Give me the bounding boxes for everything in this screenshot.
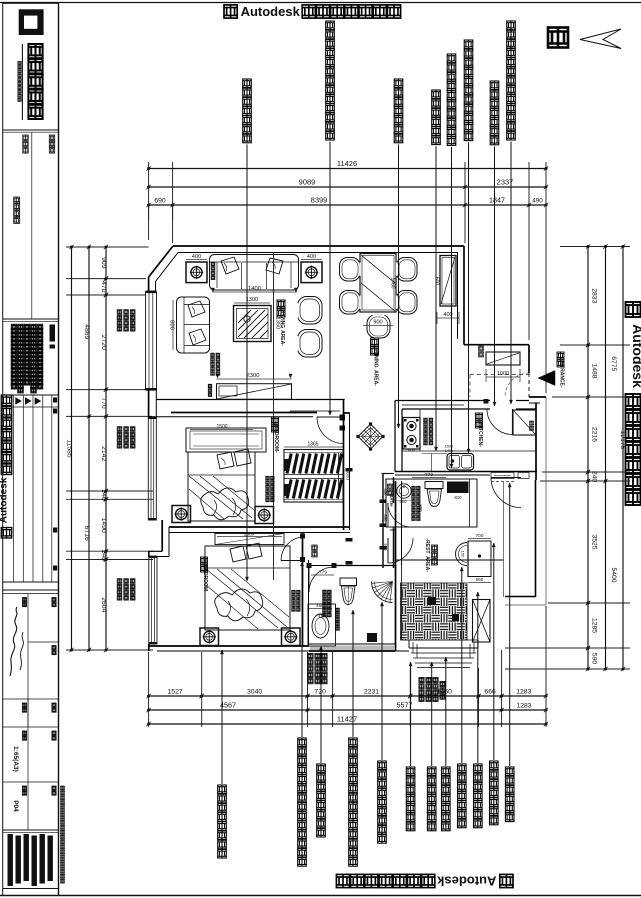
- bottom dimension row1: [149, 695, 546, 697]
- exterior wall bottom bedroom2: [148, 644, 150, 651]
- svg-text:590: 590: [591, 653, 598, 665]
- right watermark: Autodesk education banner (vertical): [626, 302, 641, 317]
- bed1 blanket: [201, 488, 249, 520]
- window spec text bedroom2: [117, 579, 122, 584]
- bed1 nightstand right: [255, 507, 274, 524]
- shoe cabinet caption: [479, 346, 484, 351]
- right dimension extension lines: [560, 246, 630, 248]
- left dimension total 11585: [71, 247, 73, 650]
- right wall shaft: [535, 480, 537, 597]
- svg-text:8399: 8399: [311, 196, 328, 205]
- svg-text:AREA-: AREA-: [373, 370, 379, 386]
- svg-text:810: 810: [455, 495, 463, 500]
- svg-text:550: 550: [383, 544, 388, 552]
- tv cabinet: [217, 384, 292, 400]
- svg-text:400: 400: [383, 489, 388, 497]
- svg-text:400: 400: [307, 254, 316, 260]
- bath1 spec labels below: [308, 653, 313, 658]
- bottom leader label 8: [445, 657, 447, 766]
- company name vertical text: [21, 44, 23, 120]
- sofa dimension 1400: [212, 291, 297, 293]
- bottom leader label 10: [477, 592, 479, 763]
- bedroom2 label: [201, 557, 208, 564]
- revision marks: [53, 398, 57, 403]
- kitchen counter divider: [431, 454, 433, 472]
- rest cabinet dim 700: [468, 538, 491, 540]
- rest laundry sink semicircle: [456, 543, 468, 566]
- bottom leader label 9: [461, 567, 463, 763]
- window bedroom1 left: [148, 418, 156, 520]
- entry top wall: [464, 344, 529, 346]
- sofa two-seat left: [177, 297, 210, 353]
- svg-text:690: 690: [154, 198, 166, 205]
- bed1 body: [188, 452, 255, 521]
- sofa2 dimension 800: [172, 300, 174, 350]
- svg-text:600: 600: [408, 448, 416, 453]
- bath1 dim 779: [311, 574, 334, 576]
- top watermark: Autodesk education banner: [224, 5, 237, 18]
- sofa three-seat: [210, 255, 299, 291]
- entry door swing dashed arc: [505, 373, 529, 397]
- bath2 washbasin round: [397, 484, 411, 498]
- svg-text:Autodesk: Autodesk: [241, 4, 301, 19]
- right dimension total 12175: [622, 247, 624, 670]
- living room spec text small: [211, 353, 215, 357]
- sofa pillows: [221, 257, 239, 274]
- sofa2 pillows: [188, 301, 205, 317]
- svg-text:11427: 11427: [337, 715, 357, 724]
- top leader label 1 faucet: [243, 79, 252, 88]
- balcony spec labels below: [419, 677, 424, 682]
- corridor right wall double: [382, 474, 384, 569]
- field label left: [23, 135, 29, 141]
- entrance label: [557, 352, 564, 359]
- bath1 washbasin: [312, 614, 329, 638]
- bottom leader label 3: [320, 646, 322, 763]
- left dimension extension lines: [66, 246, 149, 248]
- svg-text:1400: 1400: [248, 286, 261, 292]
- svg-text:779: 779: [319, 570, 327, 576]
- north arrow dart: [580, 29, 621, 49]
- top dimension row 690 8399 1847 490: [149, 204, 546, 206]
- svg-text:11426: 11426: [337, 159, 357, 168]
- exterior wall right of dining: [463, 246, 465, 345]
- svg-text:Autodesk: Autodesk: [436, 874, 496, 889]
- bath1 shower fan lines: [390, 582, 393, 603]
- eaves outline right: [545, 397, 547, 605]
- window spec text living: [117, 310, 122, 315]
- bottom leader label 12: [509, 483, 511, 766]
- company small caption text: [18, 61, 21, 64]
- svg-text:-BATH-: -BATH-: [389, 493, 394, 508]
- revision table: [3, 394, 59, 396]
- door hinge marks bedroom1: [340, 415, 346, 421]
- bath2 door arc: [387, 503, 389, 527]
- bottom leader label 6: [410, 662, 412, 766]
- right wall kitchen nook: [535, 403, 537, 480]
- svg-text:550: 550: [476, 577, 484, 582]
- bath1 top wall: [309, 565, 334, 567]
- living room label: [277, 300, 285, 308]
- bath1 toilet: [340, 578, 357, 586]
- bath2 spec text: [412, 486, 416, 490]
- top leader label 2 door brand: [326, 21, 335, 30]
- hall stub wall: [385, 479, 387, 527]
- bath1 floor mat black: [367, 633, 377, 642]
- entrance arrow: [538, 371, 555, 386]
- svg-text:1300: 1300: [246, 297, 258, 303]
- top dimension extension lines: [148, 162, 150, 240]
- exterior wall top: [173, 245, 464, 247]
- kitchen top wall: [402, 408, 490, 410]
- bath1 washbasin counter: [308, 604, 336, 646]
- svg-text:1500: 1500: [244, 532, 255, 538]
- corridor wall dim ticks: [380, 500, 387, 504]
- file path caption outside sidebar: [61, 786, 65, 790]
- exterior wall chamfer top-left: [149, 246, 173, 277]
- bed2 pillows: [230, 546, 246, 562]
- kitchen stove: [403, 418, 420, 450]
- svg-text:400: 400: [192, 254, 201, 260]
- armchair upper: [298, 297, 323, 325]
- svg-text:1:65(A3): 1:65(A3): [12, 746, 19, 772]
- svg-text:1527: 1527: [168, 689, 183, 696]
- svg-text:6775: 6775: [610, 356, 617, 371]
- dining area label: [371, 338, 379, 346]
- field label right: [49, 135, 55, 141]
- bath2 shower strip: [469, 479, 471, 527]
- bath1 shower: [372, 582, 393, 603]
- svg-text:Autodesk: Autodesk: [630, 324, 641, 388]
- rest area label: [432, 545, 438, 551]
- top leader label 8 entry door: [507, 21, 516, 30]
- exterior wall left between bedrooms: [161, 520, 163, 551]
- shoe cabinet entry: [486, 352, 520, 365]
- top leader label 7 shoe cabinet: [490, 81, 499, 90]
- svg-text:AREA-: AREA-: [424, 556, 430, 572]
- dining chair bottom: [367, 315, 390, 339]
- tv cabinet caption: [208, 384, 212, 388]
- svg-text:1488: 1488: [591, 363, 598, 378]
- hall diamond ornament: [358, 424, 383, 449]
- right dimension chain middle 6775 5400: [605, 247, 607, 670]
- svg-text:1365: 1365: [307, 442, 318, 448]
- left dimension chain middle 4869 6716: [88, 247, 90, 650]
- dining table: [360, 254, 396, 313]
- designer signature: [10, 607, 17, 676]
- revision triangles: [16, 398, 22, 405]
- svg-text:2604: 2604: [100, 597, 107, 612]
- dining chairs left: [340, 258, 361, 282]
- svg-text:800: 800: [169, 320, 175, 330]
- bottom dimension extension lines: [148, 652, 150, 727]
- top leader label 5 cabinet: [447, 54, 456, 63]
- dining chairs right: [397, 258, 418, 282]
- company logo: [19, 9, 44, 35]
- signature band: [3, 589, 59, 591]
- svg-text:600: 600: [345, 472, 351, 480]
- sofa arm spec text: [211, 262, 215, 266]
- kitchen label: [476, 413, 483, 420]
- balcony inner wall lines: [401, 565, 403, 640]
- living room end table with lamp left: [186, 262, 207, 283]
- svg-text:1000: 1000: [497, 371, 509, 377]
- top leader label 6 kitchen cabinets: [464, 40, 473, 49]
- bath2 counter black: [447, 482, 469, 494]
- living hall south wall: [157, 399, 345, 401]
- kitchen sink double bowl: [447, 454, 474, 471]
- left watermark: Autodesk education banner (vertical small): [0, 395, 12, 538]
- svg-text:2142: 2142: [100, 446, 107, 461]
- fridge entry: [513, 410, 536, 435]
- svg-text:Autodesk: Autodesk: [0, 477, 10, 523]
- bottom dimension row2 4567 5577 1283: [149, 709, 546, 711]
- AC unit box with X: [473, 600, 491, 643]
- bedroom1 right wall: [343, 400, 345, 531]
- top leader label 4 hood: [432, 90, 441, 99]
- svg-text:11585: 11585: [66, 439, 73, 458]
- exterior wall left mid: [148, 390, 150, 418]
- svg-text:12175: 12175: [619, 431, 626, 450]
- window living room left: [146, 292, 157, 390]
- bottom leader label 4: [352, 610, 354, 737]
- svg-text:470: 470: [100, 281, 107, 293]
- signature cell labels: [22, 598, 26, 602]
- svg-text:1847: 1847: [489, 196, 505, 205]
- svg-text:-BEDROOM-: -BEDROOM-: [202, 563, 208, 593]
- entry lower wall: [529, 396, 546, 398]
- svg-text:3525: 3525: [591, 534, 598, 549]
- north symbol text: [548, 28, 568, 48]
- left dimension chain inner: [105, 247, 107, 650]
- bedrooms divider wall: [169, 526, 350, 528]
- coffee table dim 1300: [234, 302, 270, 304]
- kitchen right wall: [516, 408, 536, 410]
- bedroom1 door arc: [317, 416, 344, 418]
- kitchen door arc: [512, 409, 514, 435]
- exterior wall left upper: [148, 277, 150, 292]
- svg-text:720: 720: [314, 689, 326, 696]
- armchair lower: [298, 330, 323, 358]
- top dimension row 9089 2337: [149, 186, 546, 188]
- tv cabinet dim 2300: [217, 378, 292, 380]
- bed1 dim 1500: [190, 429, 253, 431]
- dining table dims: [363, 325, 393, 327]
- kitchen wall louvers: [491, 473, 514, 479]
- title block frame: [3, 3, 59, 895]
- svg-text:2720: 2720: [100, 335, 107, 350]
- svg-text:490: 490: [532, 198, 543, 205]
- balcony dark squares: [428, 597, 436, 605]
- bed1 nightstand left: [172, 506, 191, 523]
- svg-text:-DINING: -DINING: [373, 348, 379, 367]
- title block divider 2: [3, 318, 59, 320]
- bath2 toilet: [425, 482, 443, 489]
- bedroom2 dresser: [215, 534, 284, 545]
- title block divider 1: [3, 129, 59, 131]
- dining cabinet: [440, 256, 456, 307]
- bedroom2 door arc: [281, 560, 303, 562]
- exterior wall bottom bath: [309, 643, 395, 645]
- svg-text:900: 900: [373, 320, 382, 326]
- svg-text:240: 240: [591, 471, 598, 483]
- leader line through living room: [273, 253, 275, 580]
- living room end table with lamp right: [301, 262, 322, 283]
- svg-text:1285: 1285: [591, 618, 598, 633]
- top leader label 3 faucet: [394, 79, 403, 88]
- svg-text:-LIVING: -LIVING: [279, 310, 285, 328]
- kitchen left wall: [401, 409, 403, 472]
- page bottom border: [0, 895, 641, 897]
- svg-text:1490: 1490: [100, 518, 107, 533]
- top dimension row 11426: [149, 168, 546, 170]
- bedroom1 label: [272, 417, 279, 424]
- entry hall door arc: [491, 477, 521, 479]
- svg-text:700: 700: [475, 533, 483, 539]
- rest balcony divider: [396, 559, 504, 561]
- svg-text:779: 779: [425, 472, 433, 478]
- bed2 nightstand right: [282, 628, 301, 646]
- svg-text:P04: P04: [12, 800, 19, 812]
- svg-text:1500: 1500: [216, 424, 227, 430]
- svg-text:2300: 2300: [247, 373, 260, 379]
- window spec text bedroom1: [117, 427, 122, 432]
- bath2 label: [387, 484, 392, 489]
- rest area bath2 walls: [386, 479, 477, 527]
- svg-text:770: 770: [100, 397, 107, 409]
- svg-text:2216: 2216: [591, 427, 598, 442]
- notes heading box: [50, 325, 56, 342]
- rest area cabinet 700: [468, 541, 491, 577]
- entry right wall: [528, 345, 530, 373]
- svg-text:1283: 1283: [516, 689, 531, 696]
- bed2 dim: [217, 536, 282, 538]
- bottom leader label 11: [493, 543, 495, 760]
- bedroom1 spec text: [266, 476, 270, 480]
- svg-text:9089: 9089: [299, 178, 316, 187]
- bottom leader label 7: [431, 662, 433, 766]
- svg-text:-KITCHEN-: -KITCHEN-: [477, 421, 483, 447]
- svg-text:2231: 2231: [364, 689, 379, 696]
- svg-text:600: 600: [400, 499, 408, 504]
- bed2 nightstand left: [200, 628, 219, 646]
- svg-text:4869: 4869: [83, 324, 90, 339]
- entry door opening dashed: [528, 373, 530, 397]
- bedroom1 top wall: [171, 412, 317, 414]
- svg-text:AREA-: AREA-: [279, 330, 285, 346]
- bath1 door arc: [308, 567, 310, 592]
- dining cabinet dim 400: [437, 317, 459, 319]
- title block column divider: [31, 132, 33, 319]
- svg-text:150: 150: [461, 551, 466, 558]
- shoe cabinet dim 1000: [486, 376, 520, 378]
- bottom leader label 1: [221, 650, 223, 784]
- bottom leader label 2: [301, 562, 303, 737]
- bath2 dims: [412, 477, 446, 479]
- bedroom2 right wall: [302, 533, 304, 646]
- svg-text:3040: 3040: [247, 689, 262, 696]
- bed1 pillows: [217, 452, 234, 469]
- window bedroom2 left: [149, 557, 157, 644]
- coffee table: [234, 306, 272, 342]
- right dimension chain inner: [587, 247, 589, 670]
- bath1 right wall / balcony left: [395, 481, 397, 651]
- bed2 body: [205, 546, 290, 630]
- bottom leader label 5: [381, 602, 383, 760]
- end table dim 400 right: [301, 259, 322, 261]
- bottom watermark: Autodesk education banner (rotated 180): [336, 874, 513, 889]
- rest cabinet dim 550: [468, 582, 491, 584]
- bottom dimension row3 11427: [149, 723, 546, 725]
- svg-text:1460: 1460: [390, 277, 396, 288]
- kitchen bottom wall: [395, 471, 537, 473]
- bath1 floor tile band: [310, 646, 394, 651]
- bed2 blanket: [215, 589, 263, 621]
- wardrobe bedroom1: [284, 450, 343, 503]
- balcony outer walls: [395, 650, 409, 652]
- kitchen outer walls: [395, 400, 490, 402]
- svg-text:909: 909: [100, 257, 107, 269]
- bath1 spec columns: [323, 590, 327, 594]
- notes text block: [11, 324, 16, 329]
- svg-text:890: 890: [383, 515, 388, 523]
- end table dim 400 left: [186, 259, 207, 261]
- svg-text:6716: 6716: [83, 526, 90, 541]
- svg-text:-ENTRANCE-: -ENTRANCE-: [559, 356, 565, 387]
- page top border: [0, 2, 641, 4]
- bath1 label: [312, 545, 318, 551]
- project name label: [14, 197, 20, 203]
- bedroom1 dresser: [186, 428, 266, 452]
- svg-text:1283: 1283: [516, 703, 531, 710]
- kitchen spec text: [424, 418, 428, 422]
- svg-text:5400: 5400: [610, 567, 617, 582]
- svg-text:2833: 2833: [591, 288, 598, 303]
- wardrobe dims: [284, 446, 343, 448]
- rest area door arc: [387, 538, 389, 563]
- bath1 basin dim 450: [309, 608, 332, 610]
- bottom company info block: [8, 834, 13, 886]
- kitchen counter edge: [419, 409, 421, 451]
- bedroom2 spec text: [292, 590, 296, 594]
- svg-text:-BEDROOM-: -BEDROOM-: [273, 423, 279, 453]
- svg-text:-REST: -REST: [424, 539, 430, 554]
